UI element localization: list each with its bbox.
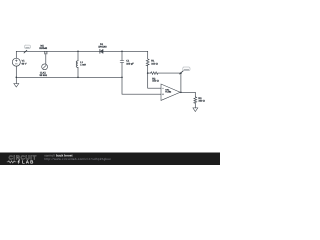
svg-text:60 V: 60 V (22, 62, 27, 65)
wire junction to R2 (148, 72, 151, 74)
logo resistor zigzag (7, 161, 17, 163)
clock source ticks (45, 51, 47, 54)
svg-text:http://www.circuitlab.com/c/47: http://www.circuitlab.com/c/47sdhpk5gkue (44, 157, 111, 161)
node dot R1/R2 junction (147, 72, 149, 74)
switch SW1 button box (25, 45, 31, 48)
wire ground stem (15, 77, 17, 83)
wire C1 stems (121, 51, 123, 77)
resistor R2 (151, 72, 158, 75)
capacitor C1 (120, 61, 124, 63)
diode D1 (99, 49, 101, 53)
svg-text:100 µF: 100 µF (126, 63, 134, 66)
ground GND1 (14, 84, 19, 88)
switch SW2 button box (183, 67, 190, 71)
wire bottom rail (16, 76, 122, 78)
svg-text:TL082: TL082 (165, 91, 172, 94)
node dot C1 top (121, 51, 123, 53)
footer bar (0, 153, 220, 166)
op-amp OA1 (161, 84, 180, 100)
wire output (180, 92, 195, 97)
wire V1 top stem (15, 51, 17, 58)
resistor R3 (194, 97, 197, 103)
svg-text:100 Ω: 100 Ω (198, 99, 205, 102)
wire R2 to feedback corner (158, 72, 181, 74)
svg-text:100 Ω: 100 Ω (152, 80, 159, 83)
wire R3 to ground (194, 103, 196, 108)
node dot L1 top (77, 51, 79, 53)
wire to op-amp + input (122, 77, 161, 94)
switch SW2 lever (180, 71, 184, 74)
svg-text:1N4148: 1N4148 (98, 45, 107, 48)
svg-text:100 Ω: 100 Ω (151, 62, 158, 65)
wire top rail corner down to R1 (147, 51, 149, 59)
svg-text:IRF540: IRF540 (39, 47, 48, 50)
wire V1 bottom stem (15, 66, 17, 77)
node dot C1 bottom (121, 77, 123, 79)
switch SW1 lever (24, 50, 27, 53)
node dot op-amp output (180, 92, 182, 94)
node dot V1 bottom junction (15, 77, 17, 79)
wire clock stem (45, 54, 47, 64)
wire - input (148, 73, 161, 88)
wire feedback down to output (180, 73, 182, 92)
clock source CLK1 circle (42, 64, 48, 70)
voltage source V1 (12, 58, 20, 66)
svg-text:LAB: LAB (22, 160, 34, 165)
wire R1 bottom to junction (147, 66, 149, 73)
node dot L1 bottom (77, 77, 79, 79)
wire L1 branch (77, 51, 79, 77)
node dot feedback corner (180, 72, 182, 74)
logo lightning bolt (17, 160, 20, 165)
inductor L1 (76, 61, 78, 68)
wire top rail (16, 50, 147, 52)
ground GND2 (193, 108, 198, 112)
resistor R1 (146, 59, 149, 66)
svg-text:50 kHz: 50 kHz (40, 74, 48, 77)
svg-text:1 mH: 1 mH (80, 64, 86, 67)
